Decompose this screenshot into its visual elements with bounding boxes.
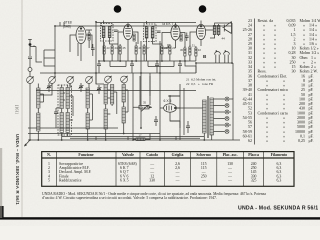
wire transformer secondary leads bbox=[204, 99, 224, 140]
svg-text:44: 44 bbox=[222, 37, 226, 41]
wire T3 leads bbox=[210, 23, 232, 38]
capacitor C45 bbox=[97, 61, 101, 73]
wire top screen bus bbox=[96, 22, 196, 24]
svg-text:—: — bbox=[175, 179, 180, 183]
wire cathode bus bbox=[40, 72, 196, 74]
trimmer cap ant bbox=[79, 83, 84, 92]
coil L11 bbox=[104, 109, 107, 129]
resistor R30 bbox=[184, 48, 186, 56]
wire lower distribution bus bbox=[100, 60, 196, 62]
svg-text:Schermo: Schermo bbox=[196, 153, 211, 157]
capacitor C47 bbox=[155, 61, 159, 73]
tuning cap VC1 bbox=[27, 77, 34, 84]
svg-text:UNDA - Mod. SEKUNDA R 56/1: UNDA - Mod. SEKUNDA R 56/1 bbox=[238, 206, 318, 212]
wire antenna to coil bbox=[29, 72, 31, 141]
wire coil taps L7 bbox=[89, 94, 92, 120]
trimmer cap osc bbox=[47, 83, 52, 92]
pilot lamp F4 bbox=[225, 117, 229, 121]
wire band switch links bbox=[30, 47, 55, 67]
tuning cap VC4 bbox=[86, 77, 93, 84]
wire pot connections bbox=[133, 106, 152, 108]
coil L10 bbox=[110, 85, 113, 105]
antenna terminal bbox=[29, 43, 32, 46]
wire lamp returns bbox=[229, 99, 233, 140]
svg-text:24: 24 bbox=[115, 46, 119, 50]
coil L1 bbox=[37, 88, 40, 108]
svg-text:330: 330 bbox=[149, 179, 155, 183]
pilot lamp F5 bbox=[225, 123, 229, 127]
resistor R25 bbox=[119, 46, 121, 54]
svg-text:62: 62 bbox=[248, 138, 252, 143]
capacitor C59 bbox=[186, 121, 190, 133]
wire gang to L1 bbox=[38, 84, 52, 141]
coil L12 bbox=[122, 85, 125, 103]
output transformer T3 bbox=[213, 26, 220, 35]
wire lower bus 2 bbox=[28, 133, 160, 135]
svg-text:Raddrizzatrice: Raddrizzatrice bbox=[59, 179, 82, 183]
wire V4 connections bbox=[190, 23, 213, 47]
pilot lamp F1 bbox=[225, 97, 229, 101]
coil L7 bbox=[86, 88, 89, 108]
wire chassis bus bbox=[28, 139, 240, 141]
tuning cap VC6 bbox=[121, 76, 128, 83]
coil L4 bbox=[66, 88, 69, 109]
resistor R23 bbox=[103, 46, 105, 54]
chassis arrow bbox=[25, 140, 31, 146]
svg-text:32: 32 bbox=[198, 48, 202, 52]
svg-text:N.: N. bbox=[47, 153, 51, 157]
wire B+ right drop bbox=[231, 23, 233, 63]
IF transformer T2 bbox=[144, 24, 157, 42]
svg-text:A: A bbox=[33, 44, 35, 48]
wire coil taps L3 L4 bbox=[63, 93, 73, 120]
coil L8 bbox=[86, 113, 89, 129]
tube data table frame bbox=[42, 152, 294, 187]
capacitor C55 bbox=[185, 33, 189, 42]
resistor R32 bbox=[195, 48, 197, 56]
grid resistor RG2 bbox=[133, 34, 135, 41]
wire osc grid riser bbox=[96, 23, 104, 85]
padder cap bbox=[54, 108, 58, 118]
wire resistor drops bbox=[104, 42, 196, 61]
wire VC3 to osc bbox=[70, 84, 72, 88]
tube data table rows bbox=[48, 162, 281, 184]
svg-text:25: 25 bbox=[123, 46, 127, 50]
wire lower bus 3 bbox=[28, 127, 118, 129]
resistor R28 bbox=[161, 46, 163, 54]
wire gang to L3 L4 bbox=[52, 84, 68, 141]
svg-text:UNDA – Mod. SEKUNDA R 56/1: UNDA – Mod. SEKUNDA R 56/1 bbox=[15, 134, 20, 205]
coil L6 bbox=[66, 113, 69, 133]
pilot lamp F6 bbox=[225, 130, 229, 134]
oscillator section box bbox=[58, 85, 72, 135]
svg-text:Griglia: Griglia bbox=[172, 153, 184, 157]
IF transformer T1 bbox=[101, 24, 114, 42]
page crease line bbox=[21, 0, 23, 217]
capacitor C48 bbox=[178, 61, 182, 73]
wire padder link bbox=[56, 108, 60, 128]
coil L13 bbox=[122, 107, 125, 123]
pilot lamp F2 bbox=[225, 104, 229, 108]
coil L5 bbox=[60, 113, 63, 133]
capacitor C52 bbox=[91, 44, 95, 56]
parts list rule bbox=[254, 19, 256, 145]
svg-text:Filamento: Filamento bbox=[271, 153, 288, 157]
svg-text:Plac. asc.: Plac. asc. bbox=[223, 153, 238, 157]
svg-text:—: — bbox=[227, 179, 232, 183]
capacitor C46 bbox=[130, 61, 134, 73]
resistor R26 bbox=[135, 46, 137, 54]
volume potentiometer R21 bbox=[139, 105, 149, 111]
antenna coupling capacitor C39 bbox=[28, 57, 32, 67]
binder hole left bbox=[114, 5, 122, 13]
svg-text:30: 30 bbox=[292, 69, 296, 74]
wire extra drops mid bbox=[110, 61, 174, 67]
coil L2 bbox=[37, 113, 40, 131]
coil L3 bbox=[60, 88, 63, 109]
svg-text:17: 17 bbox=[139, 134, 143, 138]
svg-text:»: » bbox=[274, 64, 276, 69]
tube V4 6V6 output bbox=[196, 24, 205, 46]
antenna stub bbox=[28, 40, 32, 44]
tuning cap VC5 bbox=[105, 76, 112, 83]
svg-text:[161]: [161] bbox=[15, 105, 20, 114]
svg-text:31: 31 bbox=[192, 44, 196, 48]
svg-text:»: » bbox=[283, 138, 285, 143]
parts list bbox=[243, 18, 320, 144]
wire AVC bus bbox=[36, 90, 196, 92]
wire V3 connections bbox=[162, 23, 185, 48]
wire V1 plate bbox=[70, 26, 92, 52]
resistor R24 bbox=[111, 46, 113, 54]
pilot lamp F3 bbox=[225, 110, 229, 114]
wire V1 pins down bbox=[78, 43, 81, 61]
wire coil taps L9 L10 bbox=[107, 90, 116, 114]
grid resistor RG1 bbox=[88, 33, 90, 40]
page edge shadow bbox=[0, 148, 2, 218]
capacitor C54 bbox=[157, 31, 161, 32]
svg-text:Placca: Placca bbox=[248, 153, 259, 157]
svg-text:27: 27 bbox=[147, 46, 151, 50]
antenna terminal 2 bbox=[28, 68, 32, 72]
svg-text:Funzione: Funzione bbox=[78, 153, 93, 157]
svg-text:29: 29 bbox=[172, 46, 176, 50]
resistor R29 bbox=[169, 46, 171, 54]
electrolytic C36 bbox=[215, 50, 221, 63]
tube V3 6Q7 det bbox=[171, 25, 180, 48]
resistor R33 bottom bbox=[136, 138, 145, 141]
svg-text:325: 325 bbox=[251, 179, 257, 183]
svg-text:26: 26 bbox=[139, 46, 143, 50]
svg-text:—: — bbox=[201, 179, 206, 183]
capacitor C53 bbox=[113, 30, 119, 31]
svg-text:Resist. da: Resist. da bbox=[258, 18, 274, 23]
wire coil taps L12 bbox=[125, 90, 128, 112]
bottom rule bbox=[0, 217, 320, 219]
wire V5 to mains transformer bbox=[170, 96, 203, 128]
electrolytic C37 bbox=[224, 50, 230, 63]
loudspeaker bbox=[223, 22, 232, 34]
antenna lead-in wire bbox=[29, 46, 31, 57]
resistor R31 bbox=[189, 47, 191, 55]
svg-text:23: 23 bbox=[107, 46, 111, 50]
coil L9 bbox=[104, 85, 107, 105]
wire long risers to chassis bbox=[96, 73, 160, 140]
wire HT feed down bbox=[196, 63, 233, 99]
tuning cap VC3 bbox=[67, 77, 74, 84]
wire T2 leads bbox=[147, 26, 162, 61]
power transformer T4 bbox=[203, 96, 214, 138]
wire risers mid bbox=[118, 40, 190, 73]
wire VC4 to L7 bbox=[88, 84, 89, 141]
svg-text:Catodo: Catodo bbox=[146, 153, 158, 157]
tube V2 6K7 IF amp bbox=[123, 24, 132, 48]
trimmer cap 3 bbox=[97, 85, 102, 94]
svg-text:μF.: μF. bbox=[309, 138, 314, 143]
wire RG1 bbox=[86, 30, 92, 48]
wire heater run bbox=[62, 133, 204, 140]
wire coil taps L1 bbox=[40, 94, 44, 102]
tube data table header bbox=[47, 153, 287, 157]
svg-text:d’uscita: 4 W. Circuito supere: d’uscita: 4 W. Circuito supereterodina a… bbox=[42, 196, 217, 200]
wire VC5 VC6 to coils bbox=[106, 83, 124, 140]
wire V2 connections bbox=[118, 23, 138, 62]
wire heater run 2 bbox=[70, 137, 200, 139]
svg-text:6 X 5: 6 X 5 bbox=[120, 179, 129, 183]
black corner mark bbox=[0, 206, 4, 219]
svg-text:Valvole: Valvole bbox=[122, 153, 134, 157]
tuning cap VC2 bbox=[49, 77, 56, 84]
wire detector lines bbox=[162, 44, 196, 66]
tube V1 6TE8 converter bbox=[76, 26, 86, 48]
svg-text:5: 5 bbox=[48, 179, 50, 183]
svg-text:35: 35 bbox=[143, 100, 147, 104]
tube V5 6X5 rectifier bbox=[164, 104, 177, 112]
svg-text:30: 30 bbox=[180, 48, 184, 52]
binder hole right bbox=[199, 5, 207, 13]
wire HT node bbox=[196, 63, 232, 73]
wire T1 leads bbox=[104, 26, 118, 61]
capacitor C58 bbox=[154, 116, 158, 126]
resistor R27 bbox=[143, 46, 145, 54]
wire mixer riser bbox=[54, 26, 56, 77]
wire R33 leads bbox=[133, 134, 150, 141]
grid resistor RG3 bbox=[180, 34, 182, 41]
svg-text:»: » bbox=[266, 138, 268, 143]
wire top ticks bbox=[60, 21, 201, 27]
wire top B+ bus bbox=[55, 25, 232, 27]
wire T2 secondary drop bbox=[140, 76, 150, 105]
svg-text:la 6 K 7: la 6 K 7 bbox=[163, 22, 174, 26]
wire rectifier frame bbox=[160, 84, 184, 140]
